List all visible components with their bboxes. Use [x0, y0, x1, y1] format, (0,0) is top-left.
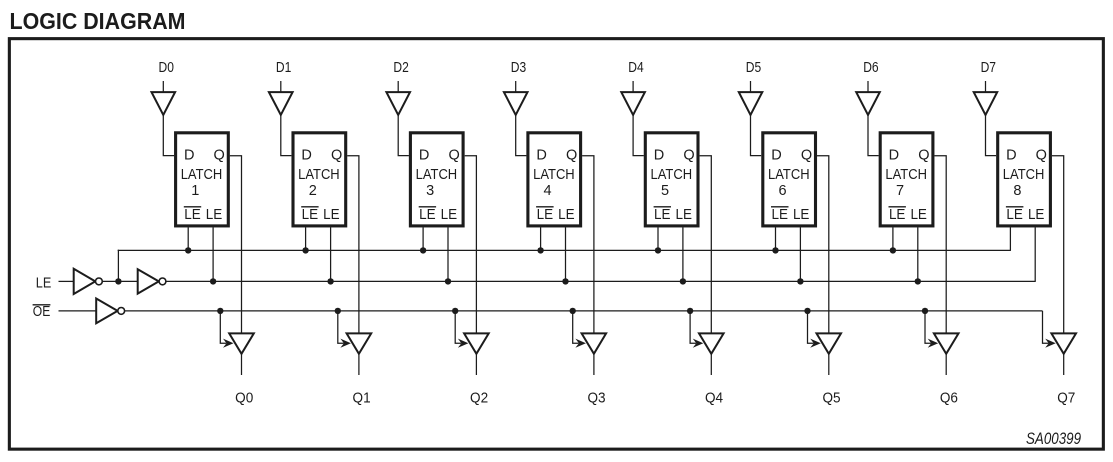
svg-text:7: 7: [896, 183, 904, 199]
svg-text:D0: D0: [159, 60, 174, 76]
svg-text:LE: LE: [206, 206, 223, 223]
wire latch 2 LEbar pin to LEbar bus: [305, 227, 307, 250]
svg-text:Q6: Q6: [940, 390, 958, 406]
svg-text:LE: LE: [1006, 206, 1023, 223]
wire latch 3 LE pin to LE bus: [447, 227, 449, 281]
wire LE input to inverter U1: [59, 280, 74, 282]
junction LEbar bus ch6: [890, 247, 896, 253]
output buffer Q7 (3-state): [1051, 333, 1076, 353]
latch 7 pin label LEbar (with overline): [889, 206, 906, 223]
wire buffer D4 to latch 5 D pin: [633, 115, 644, 156]
latch 4 pin label LEbar (with overline): [536, 206, 554, 223]
svg-text:Q0: Q0: [235, 390, 253, 406]
svg-text:LATCH: LATCH: [1003, 167, 1045, 183]
svg-text:Q4: Q4: [705, 390, 723, 406]
svg-text:D: D: [536, 147, 546, 163]
svg-text:D: D: [301, 147, 311, 163]
junction internal LE node: [115, 278, 121, 284]
svg-text:D: D: [184, 147, 194, 163]
input buffer D6: [856, 92, 880, 115]
svg-text:D: D: [889, 147, 899, 163]
svg-text:Q5: Q5: [822, 390, 840, 406]
wire buffer D0 to latch 1 D pin: [163, 115, 174, 156]
svg-text:Q3: Q3: [587, 390, 605, 406]
wire latch 8 LE pin to LE bus: [1034, 227, 1036, 281]
svg-text:Q1: Q1: [353, 390, 371, 406]
svg-text:D: D: [419, 147, 429, 163]
wire latch 3 LEbar pin to LEbar bus: [422, 227, 424, 250]
wire output enable tap ch4: [690, 311, 703, 348]
latch 1: [176, 133, 229, 226]
wire output Q3: [593, 354, 595, 375]
wire OE input to inverter U3: [59, 310, 97, 312]
wire latch 2 LE pin to LE bus: [330, 227, 332, 281]
wire output Q7: [1063, 354, 1065, 375]
wire latch 4 Q to output buffer: [582, 156, 594, 334]
svg-text:OE: OE: [33, 304, 51, 320]
wire buffer D2 to latch 3 D pin: [398, 115, 409, 156]
svg-text:LE: LE: [676, 206, 693, 223]
wire latch 8 Q to output buffer: [1052, 156, 1064, 334]
wire output enable tap ch2: [455, 311, 468, 348]
svg-text:Q: Q: [331, 147, 342, 163]
wire output enable tap ch6: [925, 311, 938, 348]
wire output Q4: [710, 354, 712, 375]
latch 5: [645, 133, 698, 226]
output buffer Q3 (3-state): [582, 333, 607, 353]
output buffer Q2 (3-state): [464, 333, 489, 353]
junction OE bus ch2: [452, 308, 458, 314]
wire output Q5: [828, 354, 830, 375]
svg-text:Q7: Q7: [1057, 390, 1075, 406]
svg-text:4: 4: [544, 183, 552, 199]
junction LE bus ch2: [445, 278, 451, 284]
wire latch 3 Q to output buffer: [465, 156, 477, 334]
wire latch 1 LEbar pin to LEbar bus: [187, 227, 189, 250]
junction LE bus ch6: [915, 278, 921, 284]
wire latch 7 LE pin to LE bus: [917, 227, 919, 281]
input buffer D4: [621, 92, 645, 115]
svg-text:D7: D7: [981, 60, 996, 76]
svg-text:Q: Q: [448, 147, 459, 163]
wire output enable tap ch1: [338, 311, 351, 348]
latch 8: [998, 133, 1051, 226]
svg-text:LE: LE: [654, 206, 671, 223]
latch 7: [880, 133, 933, 226]
junction OE bus ch4: [687, 308, 693, 314]
wire latch 7 LEbar pin to LEbar bus: [892, 227, 894, 250]
svg-text:D6: D6: [863, 60, 878, 76]
node OE input label (with overline): [33, 304, 51, 320]
latch 5 pin label LEbar (with overline): [654, 206, 671, 223]
svg-text:LE: LE: [184, 206, 201, 223]
latch 3: [410, 133, 463, 226]
wire output enable tap ch5: [808, 311, 821, 348]
svg-text:Q: Q: [214, 147, 225, 163]
svg-text:Q: Q: [801, 147, 812, 163]
wire latch 6 Q to output buffer: [817, 156, 829, 334]
svg-text:8: 8: [1013, 183, 1021, 199]
svg-text:LE: LE: [537, 206, 554, 223]
wire D7 stub: [985, 81, 987, 93]
latch 6: [763, 133, 816, 226]
output buffer Q6 (3-state): [934, 333, 959, 353]
latch 1 pin label LEbar (with overline): [184, 206, 201, 223]
junction LEbar bus ch3: [537, 247, 543, 253]
svg-text:LE: LE: [558, 206, 575, 223]
wire output Q6: [945, 354, 947, 375]
junction LEbar bus ch5: [772, 247, 778, 253]
wire latch 6 LEbar pin to LEbar bus: [775, 227, 777, 250]
wire latch 7 Q to output buffer: [935, 156, 947, 334]
svg-text:D: D: [654, 147, 664, 163]
svg-text:Q2: Q2: [470, 390, 488, 406]
svg-text:Q: Q: [1036, 147, 1047, 163]
wire buffer D5 to latch 6 D pin: [751, 115, 762, 156]
svg-text:1: 1: [191, 183, 199, 199]
wire latch 2 Q to output buffer: [347, 156, 359, 334]
wire output enable tap ch7: [1043, 311, 1056, 348]
wire latch 1 LE pin to LE bus: [212, 227, 214, 281]
svg-text:LE: LE: [889, 206, 906, 223]
svg-text:5: 5: [661, 183, 669, 199]
input buffer D0: [152, 92, 176, 115]
wire D1 stub: [280, 81, 282, 93]
wire latch 4 LE pin to LE bus: [565, 227, 567, 281]
wire buffer D7 to latch 8 D pin: [986, 115, 997, 156]
latch 6 pin label LEbar (with overline): [771, 206, 789, 223]
inverter U1 (LE): [74, 269, 103, 294]
svg-text:LE: LE: [772, 206, 789, 223]
svg-text:LATCH: LATCH: [416, 167, 458, 183]
latch 2 pin label LEbar (with overline): [301, 206, 318, 223]
junction OE bus ch0: [217, 308, 223, 314]
junction LEbar bus ch0: [185, 247, 191, 253]
wire latch 5 Q to output buffer: [700, 156, 712, 334]
wire buffer D1 to latch 2 D pin: [281, 115, 292, 156]
net LE bus: [166, 280, 1036, 282]
wire buffer D3 to latch 4 D pin: [516, 115, 527, 156]
svg-text:Q: Q: [918, 147, 929, 163]
junction LEbar bus ch4: [655, 247, 661, 253]
svg-text:2: 2: [309, 183, 317, 199]
junction LE bus ch5: [797, 278, 803, 284]
wire buffer D6 to latch 7 D pin: [868, 115, 879, 156]
input buffer D5: [739, 92, 763, 115]
svg-text:LE: LE: [441, 206, 458, 223]
net LEbar bus: [118, 249, 1011, 251]
junction LE bus ch0: [210, 278, 216, 284]
svg-text:LE: LE: [419, 206, 436, 223]
svg-text:Q: Q: [683, 147, 694, 163]
wire latch 1 Q to output buffer: [230, 156, 242, 334]
wire U1 output to U2 input: [102, 280, 138, 282]
svg-text:LATCH: LATCH: [298, 167, 340, 183]
svg-text:LOGIC DIAGRAM: LOGIC DIAGRAM: [10, 8, 186, 34]
wire output Q1: [358, 354, 360, 375]
junction LE bus ch4: [680, 278, 686, 284]
svg-text:6: 6: [778, 183, 786, 199]
latch 8 pin label LEbar (with overline): [1006, 206, 1024, 223]
inverter U3 (OE): [96, 299, 124, 324]
svg-text:D4: D4: [628, 60, 643, 76]
wire latch 5 LE pin to LE bus: [682, 227, 684, 281]
svg-text:LATCH: LATCH: [181, 167, 223, 183]
input buffer D3: [504, 92, 528, 115]
input buffer D7: [974, 92, 998, 115]
svg-text:D5: D5: [746, 60, 761, 76]
wire D5 stub: [750, 81, 752, 93]
svg-text:D: D: [1006, 147, 1016, 163]
wire latch 8 LEbar pin to LEbar bus: [1009, 227, 1011, 250]
wire latch 6 LE pin to LE bus: [799, 227, 801, 281]
junction OE bus ch5: [804, 308, 810, 314]
latch 3 pin label LEbar (with overline): [419, 206, 436, 223]
svg-text:LE: LE: [36, 276, 52, 292]
latch 2: [293, 133, 346, 226]
wire latch 4 LEbar pin to LEbar bus: [540, 227, 542, 250]
svg-text:SA00399: SA00399: [1026, 429, 1081, 448]
wire riser to LEbar bus: [117, 250, 119, 282]
output buffer Q1 (3-state): [347, 333, 372, 353]
junction OE bus ch3: [570, 308, 576, 314]
svg-text:Q: Q: [566, 147, 577, 163]
junction LEbar bus ch1: [302, 247, 308, 253]
wire D3 stub: [515, 81, 517, 93]
latch 4: [528, 133, 581, 226]
input buffer D2: [386, 92, 410, 115]
wire D6 stub: [867, 81, 869, 93]
svg-text:LE: LE: [302, 206, 319, 223]
svg-text:D: D: [771, 147, 781, 163]
svg-text:LE: LE: [1028, 206, 1045, 223]
svg-text:LATCH: LATCH: [533, 167, 575, 183]
junction LE bus ch3: [562, 278, 568, 284]
junction LEbar bus ch2: [420, 247, 426, 253]
junction OE bus ch6: [922, 308, 928, 314]
svg-text:D3: D3: [511, 60, 526, 76]
svg-text:LATCH: LATCH: [651, 167, 693, 183]
wire output Q2: [475, 354, 477, 375]
svg-text:3: 3: [426, 183, 434, 199]
wire output Q0: [241, 354, 243, 375]
input buffer D1: [269, 92, 293, 115]
wire latch 5 LEbar pin to LEbar bus: [657, 227, 659, 250]
output buffer Q0 (3-state): [229, 333, 254, 353]
output buffer Q5 (3-state): [817, 333, 842, 353]
wire D4 stub: [632, 81, 634, 93]
svg-text:LE: LE: [793, 206, 810, 223]
svg-text:LE: LE: [323, 206, 340, 223]
junction OE bus ch1: [335, 308, 341, 314]
svg-text:LATCH: LATCH: [885, 167, 927, 183]
wire output enable tap ch3: [573, 311, 586, 348]
output buffer Q4 (3-state): [699, 333, 724, 353]
wire D0 stub: [162, 81, 164, 93]
svg-text:LE: LE: [910, 206, 927, 223]
junction LE bus ch1: [327, 278, 333, 284]
svg-text:LATCH: LATCH: [768, 167, 810, 183]
svg-text:D1: D1: [276, 60, 291, 76]
wire D2 stub: [397, 81, 399, 93]
net OE bus: [124, 310, 1042, 312]
svg-text:D2: D2: [393, 60, 408, 76]
inverter U2 (LE buffer): [138, 269, 166, 293]
wire output enable tap ch0: [220, 311, 233, 348]
